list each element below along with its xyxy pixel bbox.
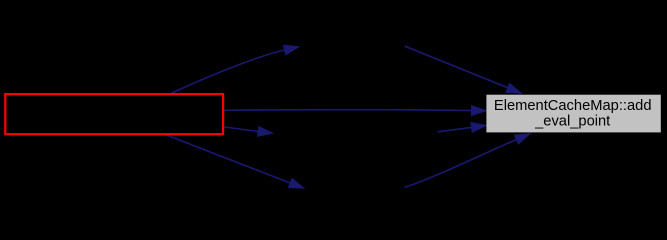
- edge: node2 to ElementCacheMap::add_eval_point: [438, 123, 487, 133]
- edge: node1 to ElementCacheMap::add_eval_point: [405, 46, 522, 93]
- edge: red box to node3: [167, 135, 305, 188]
- edge: red box to node2: [224, 127, 273, 137]
- svg-text:_eval_point: _eval_point: [534, 114, 610, 130]
- node: ElementCacheMap::add_eval_point (gray box): [486, 95, 660, 133]
- edge: red box to node1: [172, 45, 299, 93]
- node: red-bordered truncated caller box: [5, 94, 223, 134]
- edge: red box to ElementCacheMap::add_eval_point: [224, 106, 486, 116]
- svg-text:ElementCacheMap::add: ElementCacheMap::add: [494, 98, 652, 114]
- edge: node3 to ElementCacheMap::add_eval_point: [405, 134, 530, 188]
